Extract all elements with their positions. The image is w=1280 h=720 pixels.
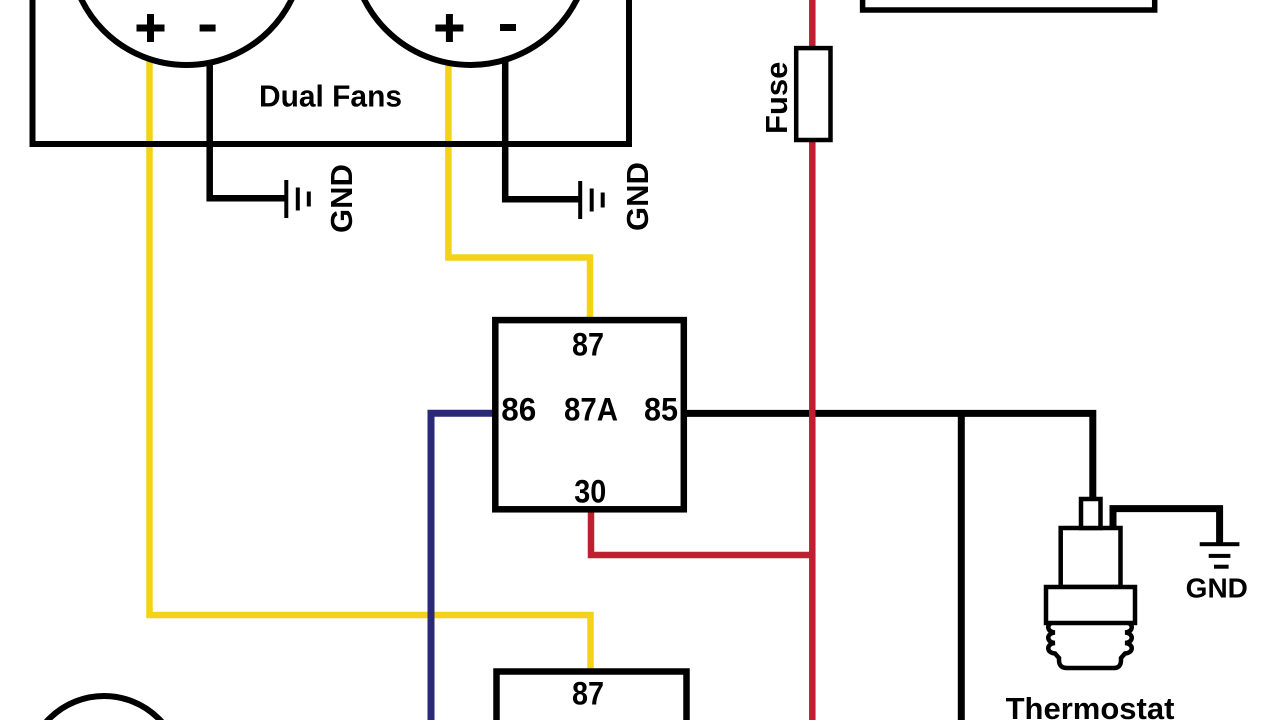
terminal plus fan2 [435,14,463,42]
wire red battery feed through fuse [809,0,816,720]
svg-text:87: 87 [572,676,604,712]
ground thermostat [1200,542,1240,569]
ground fan2 [578,181,605,219]
terminal minus fan2 [500,24,516,31]
svg-text:85: 85 [644,392,678,428]
svg-text:87A: 87A [564,392,618,428]
wire black branch junction down [958,413,965,720]
battery box [863,0,1155,10]
wire yellow fan1 plus to relay2 pin87 [150,30,591,674]
svg-text:GND: GND [620,162,655,231]
svg-text:30: 30 [574,474,606,510]
svg-text:Thermostat: Thermostat [1006,691,1175,720]
fan motor M2 [352,0,590,65]
relay U1 [495,320,684,509]
relay U2 [497,672,687,720]
ground fan1 [284,180,311,218]
wire black fan2 minus to ground [505,30,579,199]
svg-text:Dual Fans: Dual Fans [259,79,402,114]
wire black fan1 minus to ground [210,30,285,198]
svg-text:GND: GND [324,164,359,233]
wire blue relay1 pin86 [431,413,498,720]
svg-text:87: 87 [572,327,604,363]
terminal minus fan1 [200,25,216,32]
wire red relay1 pin30 [591,505,815,555]
fuse F1 [796,48,830,140]
fan motor M1 [70,0,304,65]
fan motor M3 [27,696,182,720]
svg-text:Fuse: Fuse [759,62,794,134]
thermostat body [1046,499,1135,668]
terminal plus fan1 [137,14,165,42]
dual fans box [33,0,630,144]
svg-text:86: 86 [501,392,536,428]
wire black thermostat to ground [1113,509,1220,543]
svg-text:GND: GND [1186,573,1248,604]
wire black relay1 pin85 to thermostat [680,413,1093,505]
wire yellow fan2 plus to relay1 pin87 [448,30,590,324]
